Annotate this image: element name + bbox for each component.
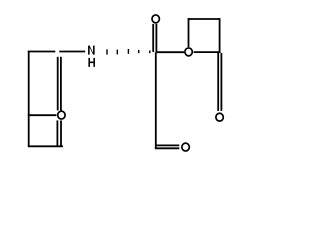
wire oxetane ring top edge <box>188 18 221 20</box>
wire middle horizontal bond to O <box>28 114 57 116</box>
hashed wedge bond tick 1 <box>106 49 107 54</box>
wire C=O double bond upper left line1 <box>57 57 59 111</box>
wire oxetane ring right edge <box>219 18 221 53</box>
atom H of NH <box>88 58 95 67</box>
hashed wedge bond tick 3 <box>128 49 129 54</box>
atom O oxetane ring <box>185 48 192 56</box>
atom O left ring <box>58 111 65 119</box>
atom O aldehyde <box>182 143 189 151</box>
atom O right carbonyl <box>216 113 223 121</box>
wire bond C to N <box>59 51 85 53</box>
wire central C=O up line1 <box>152 24 154 52</box>
wire left ring left vertical <box>28 51 30 147</box>
wire right C=O down line2 <box>220 53 222 111</box>
wire chain vertical down from central C <box>155 52 157 148</box>
hashed wedge bond tick 5 <box>149 50 150 53</box>
wire O=C double bond lower left line2 <box>60 120 62 145</box>
wire oxetane ring left edge <box>188 18 190 47</box>
wire left ring top edge <box>28 51 56 53</box>
wire aldehyde C=O line2 <box>155 147 180 149</box>
wire aldehyde C=O line1 <box>155 144 179 146</box>
hashed wedge bond tick 2 <box>117 50 118 55</box>
wire O=C double bond lower left line1 <box>56 120 58 145</box>
wire bond central C to ring O <box>156 51 184 53</box>
atom N <box>88 46 95 55</box>
wire left ring bottom edge <box>28 145 63 147</box>
wire right C=O down line1 <box>217 53 219 111</box>
wire central C=O up line2 <box>155 24 157 52</box>
wire oxetane ring bottom edge <box>194 51 221 53</box>
hashed wedge bond tick 4 <box>138 50 139 53</box>
wire C=O double bond upper left line2 <box>60 57 62 111</box>
atom O top carbonyl <box>152 15 159 23</box>
